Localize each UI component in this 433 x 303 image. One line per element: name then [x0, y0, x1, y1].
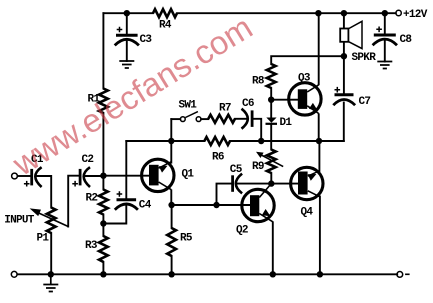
wire left vertical from rail to R1: [102, 13, 104, 88]
wire bottom rail: [17, 273, 397, 275]
svg-text:R8: R8: [252, 76, 265, 88]
wire R2 bottom to C4 tap node: [102, 215, 104, 224]
capacitor C8: [373, 35, 397, 45]
capacitor C7: [333, 95, 355, 105]
junction C8 on top rail: [382, 10, 388, 16]
wire C8 stem top: [384, 13, 386, 33]
capacitor C1 plus sign: [24, 181, 30, 187]
junction C5 riser node: [213, 202, 219, 208]
resistor R5: [167, 228, 176, 256]
wire Q4 collector down to rail: [319, 197, 321, 275]
resistor R4: [153, 9, 177, 17]
ground below C8: [377, 62, 392, 69]
svg-text:R5: R5: [180, 233, 193, 245]
svg-text:C8: C8: [400, 34, 413, 46]
transistor Q1: [142, 159, 174, 191]
wire Q2 emitter down to rail: [272, 222, 274, 274]
svg-text:SW1: SW1: [179, 100, 198, 112]
input terminal circle: [12, 173, 18, 179]
wire C8 stem to ground: [384, 41, 386, 61]
svg-text:R4: R4: [159, 20, 172, 32]
wire Q3 base: [271, 99, 298, 101]
transistor Q4: [291, 167, 323, 199]
svg-text:Q3: Q3: [298, 73, 311, 85]
wire D1 top lead: [270, 100, 272, 118]
wire C2 to base node: [85, 175, 104, 177]
speaker SPKR: [340, 21, 362, 48]
junction Q1 base node: [100, 173, 106, 179]
wire Q3 collector to +12V rail: [318, 13, 320, 84]
wire Q1 node to Q2 base: [172, 204, 250, 206]
wire P1 bottom to ground rail: [50, 233, 52, 274]
svg-text:C6: C6: [242, 98, 254, 110]
resistor R7: [208, 115, 235, 123]
wire Q4 emitter up to output row: [318, 141, 320, 171]
resistor R2: [99, 190, 108, 215]
capacitor C1: [32, 167, 42, 187]
wire R3 leads: [102, 224, 104, 275]
svg-text:Q1: Q1: [182, 169, 195, 181]
svg-text:+12V: +12V: [403, 9, 428, 21]
wire Q1 collector down: [170, 190, 172, 205]
wire base node to Q1 base: [103, 175, 149, 177]
bottom right terminal circle: [397, 272, 403, 278]
ground below C3: [119, 61, 134, 68]
svg-text:C7: C7: [359, 96, 371, 108]
capacitor C5: [233, 174, 243, 194]
svg-text:C5: C5: [230, 164, 243, 176]
wire R8 top from speaker node: [271, 56, 344, 64]
capacitor C3: [115, 35, 139, 45]
transistor Q3: [289, 83, 321, 115]
variable resistor R9 arrow: [256, 152, 283, 167]
junction R3 on bottom rail: [100, 271, 106, 277]
svg-text:R7: R7: [219, 103, 231, 115]
wire C3 stem top: [126, 13, 128, 34]
wire C1 to P1 top corner: [37, 176, 52, 208]
svg-text:INPUT: INPUT: [4, 215, 35, 227]
svg-text:C3: C3: [140, 34, 153, 46]
junction C3 on top rail: [124, 10, 130, 16]
resistor R6: [204, 137, 230, 145]
wire P1 wiper riser to C2: [68, 176, 79, 227]
junction speaker on top rail: [341, 10, 347, 16]
transistor Q2: [242, 184, 274, 222]
capacitor C7 plus sign: [335, 87, 341, 93]
switch SW1: [180, 112, 201, 122]
svg-text:R9: R9: [252, 161, 264, 173]
capacitor C6: [242, 109, 253, 129]
junction C6 output on row: [258, 138, 264, 144]
svg-text:R2: R2: [86, 193, 98, 205]
resistor R1: [99, 89, 108, 114]
junction P1 on bottom rail: [48, 271, 54, 277]
wire C3 stem to ground: [126, 42, 128, 62]
wire speaker top stem: [343, 13, 345, 28]
wire feedback row left segment: [126, 140, 204, 142]
wire SW1 right lead to R7: [201, 118, 208, 120]
junction Q3 collector on top rail: [315, 10, 321, 16]
capacitor C4: [115, 200, 138, 210]
potentiometer P1 wiper arrow: [30, 208, 69, 226]
wire R7 to C6: [235, 118, 246, 120]
svg-text:Q2: Q2: [236, 225, 248, 237]
wire speaker bottom stem: [343, 42, 345, 56]
wire C4 top stem to feedback node: [125, 141, 127, 199]
wire feedback row right segment: [230, 140, 344, 142]
svg-text:C2: C2: [82, 154, 94, 166]
svg-text:SPKR: SPKR: [352, 52, 377, 64]
bottom left terminal circle: [11, 271, 17, 277]
diode D1: [266, 118, 278, 125]
capacitor C2 plus sign: [72, 181, 78, 187]
junction Q4 collector on bottom rail: [317, 271, 323, 277]
wire C7 top stem: [343, 56, 345, 93]
junction Q2 emitter on bottom rail: [270, 271, 276, 277]
wire C4 tap horizontal: [103, 206, 126, 223]
resistor R3: [99, 236, 108, 262]
junction node A SW1: [168, 138, 174, 144]
svg-text:R3: R3: [85, 240, 98, 252]
junction R9 bottom Q4 base: [268, 180, 274, 186]
potentiometer P1 zigzag: [47, 208, 56, 234]
svg-text:P1: P1: [37, 233, 50, 245]
junction Q1 collector node: [168, 202, 174, 208]
capacitor C4 plus sign: [117, 191, 123, 197]
svg-text:R6: R6: [212, 152, 224, 164]
wire R5 leads: [171, 205, 173, 274]
wire R8 bottom to Q3 base node: [270, 88, 272, 100]
capacitor C8 plus sign: [376, 27, 382, 33]
wire Q3 emitter to output row: [318, 114, 320, 141]
wire R9 node to Q4 base: [271, 183, 298, 185]
wire Q1 emitter to node A: [170, 141, 172, 163]
svg-text:Q4: Q4: [301, 207, 314, 219]
wire input terminal to C1: [18, 175, 31, 177]
wire SW1 left lead: [171, 118, 180, 120]
wire C5 out to R9 node: [237, 183, 271, 185]
svg-text:D1: D1: [280, 117, 293, 129]
junction Q3 emitter output node: [316, 138, 322, 144]
wire top rail right segment: [177, 12, 396, 14]
wire top rail left segment: [103, 12, 153, 14]
junction speaker bottom node: [341, 53, 347, 59]
wire D1 bottom through row to R9: [270, 125, 272, 150]
junction C4 tap between R2 R3: [100, 220, 106, 226]
wire R2 top lead: [102, 176, 104, 190]
capacitor C2: [80, 167, 90, 187]
junction R5 on bottom rail: [168, 271, 174, 277]
wire R9 bottom lead: [270, 173, 272, 184]
junction R8 bottom Q3 base: [268, 97, 274, 103]
minus dash at bottom right: [405, 273, 410, 275]
wire C7 bottom stem to output row: [343, 103, 345, 142]
resistor R8: [267, 64, 276, 88]
svg-text:C4: C4: [139, 200, 152, 212]
wire C5 riser: [217, 184, 232, 205]
wire C6 to feedback row: [253, 119, 261, 141]
+12V terminal circle: [396, 10, 401, 15]
ground below bottom rail: [43, 274, 58, 291]
variable resistor R9 zigzag: [267, 150, 276, 174]
wire SW1 drop: [170, 119, 172, 141]
capacitor C3 plus sign: [117, 27, 123, 33]
wire R1 bottom to input node: [102, 113, 104, 176]
